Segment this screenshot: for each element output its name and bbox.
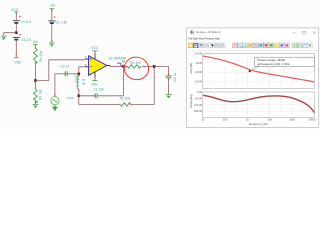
- svg-text:-20.00: -20.00: [195, 70, 203, 74]
- wire feedback drop: [122, 66, 124, 95]
- resistor R1 135: [123, 61, 144, 68]
- wire: [51, 24, 53, 42]
- toolbar icons: [188, 43, 312, 48]
- svg-text:R1 100: R1 100: [130, 61, 141, 65]
- wire: [15, 24, 17, 33]
- ground: [166, 95, 172, 99]
- wire: [132, 66, 154, 104]
- wire: [51, 11, 53, 21]
- wire riser to inverting input: [79, 67, 85, 74]
- svg-text:R3 10k: R3 10k: [39, 89, 43, 100]
- svg-text:-60.00: -60.00: [195, 80, 203, 84]
- capacitor C1 22n: [94, 87, 105, 98]
- title bar icon: [190, 31, 194, 34]
- svg-text:Frequency (Hz): Frequency (Hz): [249, 122, 268, 126]
- node junction divider: [34, 79, 37, 82]
- wire bottom rail: [79, 96, 120, 105]
- window buttons: [293, 31, 316, 34]
- wire: [34, 64, 36, 81]
- gain plot frame and grid: [203, 54, 315, 89]
- svg-text:-60.00: -60.00: [195, 96, 203, 100]
- ground: [49, 43, 55, 47]
- wire op-amp output: [110, 65, 123, 67]
- wire divider to +input riser: [35, 60, 85, 81]
- node junction C3/L1: [78, 73, 81, 76]
- capacitor C3 1T: [60, 64, 69, 76]
- svg-text:C1 22n: C1 22n: [94, 87, 105, 91]
- svg-text:VCC: VCC: [91, 46, 99, 50]
- svg-text:C2 1u: C2 1u: [173, 73, 177, 82]
- svg-text:at frequency (Hz): 1.33k: at frequency (Hz): 1.33k: [257, 62, 290, 66]
- node VCC label: [11, 8, 19, 14]
- op-amp U1 OPA348: [82, 46, 126, 86]
- gain axis labels: [195, 52, 203, 84]
- svg-text:C3 1T: C3 1T: [60, 64, 69, 68]
- svg-text:60.00: 60.00: [196, 52, 203, 56]
- wire: [99, 95, 124, 97]
- wire: [144, 65, 154, 67]
- toolbar separator: [187, 50, 318, 52]
- AC source VG1: [51, 97, 59, 112]
- SCHEMATIC: [1, 4, 177, 112]
- current arrow mark: [122, 60, 125, 62]
- phase curve: [203, 95, 314, 112]
- annotation callout: [250, 66, 259, 71]
- resistor R2 10k: [119, 96, 132, 106]
- svg-text:L1 1T: L1 1T: [74, 73, 78, 81]
- resistor R3 10k: [34, 82, 43, 104]
- wire: [168, 78, 170, 94]
- node junction output: [122, 65, 125, 68]
- node junction L1/C1/R2: [78, 95, 81, 98]
- frequency tick labels: [201, 118, 316, 122]
- svg-text:VG1: VG1: [67, 96, 73, 100]
- svg-text:File Edit View Process Help: File Edit View Process Help: [188, 37, 220, 41]
- svg-text:100k: 100k: [289, 118, 295, 122]
- inductor L1 1T: [74, 73, 79, 91]
- wire C1 row: [79, 95, 95, 97]
- wire: [15, 14, 17, 21]
- window frame: [187, 28, 319, 128]
- svg-text:VEE: VEE: [91, 83, 98, 87]
- svg-text:Noname - AC Bode(1): Noname - AC Bode(1): [196, 31, 221, 34]
- gain curve: [203, 56, 314, 82]
- wire: [34, 102, 36, 104]
- svg-text:-180.00: -180.00: [193, 109, 202, 113]
- wire: [69, 73, 79, 75]
- svg-text:Gain (dB): Gain (dB): [189, 63, 193, 74]
- phase axis labels: [193, 90, 202, 113]
- ground: [1, 36, 7, 40]
- svg-text:-120.00: -120.00: [193, 103, 202, 107]
- svg-text:20.00: 20.00: [196, 61, 203, 65]
- capacitor C2 1u: [166, 73, 177, 82]
- wire C3 row: [55, 73, 65, 75]
- svg-text:U1 OPA348: U1 OPA348: [109, 56, 127, 60]
- resistor R4 10k: [34, 47, 43, 63]
- svg-text:Vin: Vin: [33, 40, 38, 44]
- phase plot frame and grid: [203, 92, 315, 117]
- svg-text:0.00: 0.00: [197, 90, 203, 94]
- battery V3 2.5: [13, 34, 31, 43]
- phase margin marker: [249, 70, 251, 72]
- svg-text:Phase [deg]: Phase [deg]: [189, 94, 193, 108]
- svg-text:R4 10k: R4 10k: [39, 51, 43, 62]
- battery V2 1.35: [48, 16, 67, 25]
- svg-text:10k: 10k: [268, 118, 273, 122]
- svg-text:100: 100: [223, 118, 228, 122]
- svg-text:Vin: Vin: [50, 4, 55, 8]
- svg-text:V1 2.5: V1 2.5: [21, 20, 31, 24]
- node Vin label (source column): [50, 4, 56, 12]
- PLOT WINDOW: [187, 28, 319, 128]
- svg-text:VEE: VEE: [15, 61, 23, 65]
- battery V1 2.5: [13, 16, 31, 25]
- wire: [4, 33, 17, 36]
- wire to load: [154, 66, 168, 75]
- annotation box: [255, 57, 315, 66]
- svg-text:V3 2.5: V3 2.5: [21, 38, 31, 42]
- voltage pin probe: [117, 63, 122, 66]
- node junction V1/V3: [15, 31, 18, 34]
- wire VG1 riser: [54, 74, 56, 97]
- node junction load: [153, 65, 156, 68]
- svg-text:V2 1.35: V2 1.35: [55, 20, 67, 24]
- ground: [33, 104, 39, 108]
- svg-text:R2 10k: R2 10k: [120, 96, 131, 100]
- wire: [78, 91, 80, 96]
- svg-text:1MEG: 1MEG: [309, 118, 316, 122]
- node Vin label (divider): [33, 40, 38, 47]
- node VEE label: [14, 56, 22, 64]
- annotation ellipse: [123, 56, 150, 82]
- wire: [15, 41, 17, 57]
